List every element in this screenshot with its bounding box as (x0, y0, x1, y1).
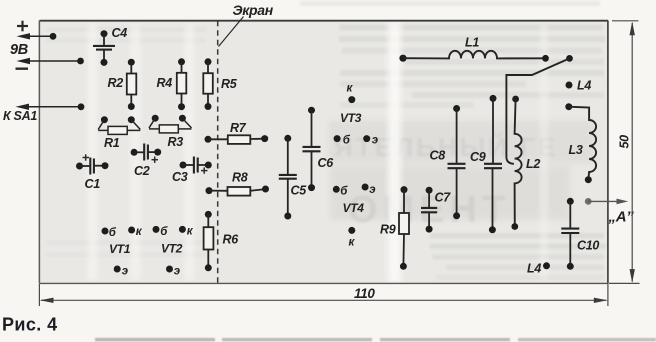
trimmer resistor R3 (149, 115, 192, 133)
electrolytic capacitor C1 (76, 154, 109, 174)
svg-text:R2: R2 (108, 76, 124, 90)
inductor L3 (565, 103, 596, 183)
transistor VT3 pad к (348, 96, 355, 103)
transistor VT2 pad э (166, 266, 173, 273)
svg-text:б: б (160, 226, 168, 238)
dimension extension line left (38, 284, 40, 306)
pad L4 bottom (543, 262, 550, 269)
svg-text:C8: C8 (430, 149, 446, 163)
svg-text:э: э (122, 266, 128, 278)
transistor VT2 pad к (179, 226, 186, 233)
transistor VT4 pad к (348, 227, 355, 234)
svg-text:R7: R7 (230, 121, 247, 135)
minus supply label (16, 67, 29, 69)
svg-text:э: э (372, 135, 378, 147)
pad L4 top (566, 82, 573, 89)
svg-text:VT4: VT4 (343, 201, 365, 215)
svg-text:9В: 9В (10, 42, 28, 58)
electrolytic capacitor C3 (180, 157, 212, 174)
svg-text:VT3: VT3 (340, 111, 362, 125)
svg-text:R9: R9 (380, 223, 396, 237)
board outline (40, 21, 608, 284)
svg-text:„А”: „А” (608, 209, 635, 226)
resistor R8 (206, 186, 270, 196)
resistor R6 (204, 211, 214, 271)
dimension line 110 (40, 298, 608, 303)
svg-text:C7: C7 (435, 191, 452, 205)
capacitor C7 (421, 187, 437, 233)
transistor VT1 pad э (114, 266, 121, 273)
svg-text:C10: C10 (577, 239, 599, 253)
dimension extension line bottom right (609, 282, 640, 284)
svg-text:б: б (109, 227, 117, 239)
svg-text:50: 50 (618, 135, 632, 149)
svg-text:C6: C6 (318, 156, 335, 170)
svg-text:L4: L4 (527, 262, 541, 276)
capacitor C8 (448, 105, 466, 219)
svg-text:L3: L3 (569, 143, 583, 157)
electrolytic capacitor C2 (131, 144, 162, 163)
svg-text:C5: C5 (291, 184, 308, 198)
transistor VT4 pad б (333, 186, 340, 193)
capacitor C5 (279, 135, 297, 220)
dimension extension line top right (612, 20, 639, 22)
switch wire from L1 to L2 tap (506, 55, 572, 164)
svg-text:б: б (340, 186, 348, 198)
svg-text:L4: L4 (577, 79, 591, 93)
svg-text:C9: C9 (470, 150, 486, 164)
svg-text:L1: L1 (465, 36, 479, 50)
capacitor C6 (303, 107, 321, 191)
shield line (Экран) (217, 21, 219, 284)
capacitor C4 (93, 30, 115, 66)
capacitor C10 (561, 198, 579, 270)
svg-text:э: э (174, 266, 180, 278)
transistor VT3 pad б (334, 135, 341, 142)
svg-text:К SA1: К SA1 (3, 109, 37, 123)
dimension extension line right (607, 284, 609, 306)
svg-text:C1: C1 (85, 177, 101, 191)
transistor VT4 pad э (362, 184, 369, 191)
svg-text:110: 110 (354, 286, 375, 301)
svg-text:R4: R4 (157, 76, 173, 90)
plus supply label (17, 21, 28, 32)
transistor VT3 pad э (363, 135, 370, 142)
board outline (39, 21, 608, 284)
trimmer resistor R1 (98, 116, 140, 134)
dimension line 50 (630, 22, 635, 283)
capacitor C9 (484, 95, 502, 233)
transistor VT2 pad б (153, 226, 160, 233)
svg-text:R1: R1 (104, 136, 120, 150)
svg-text:C3: C3 (172, 170, 188, 184)
leader line to shield (219, 17, 244, 47)
wire arrow -9V (17, 58, 84, 65)
inductor L1 (399, 51, 548, 62)
transistor VT1 pad к (128, 227, 135, 234)
svg-text:C4: C4 (112, 26, 128, 40)
svg-text:VT2: VT2 (161, 242, 183, 256)
transistor VT1 pad б (102, 228, 109, 235)
resistor R9 (399, 186, 409, 270)
svg-text:R3: R3 (168, 135, 184, 149)
svg-text:б: б (343, 135, 351, 147)
wire arrow to SA1 (16, 103, 85, 110)
svg-text:VT1: VT1 (109, 242, 131, 256)
resistor R5 (203, 58, 213, 110)
svg-text:R6: R6 (223, 233, 240, 247)
svg-text:R5: R5 (221, 77, 238, 91)
svg-text:Рис. 4: Рис. 4 (2, 315, 58, 335)
inductor L2 (511, 96, 521, 230)
resistor R2 (127, 59, 137, 110)
resistor R7 (205, 135, 269, 144)
svg-text:э: э (369, 184, 375, 196)
resistor R4 (177, 58, 187, 110)
svg-text:L2: L2 (526, 157, 540, 171)
output A arrow (585, 198, 629, 205)
svg-text:R8: R8 (232, 171, 248, 185)
svg-text:Экран: Экран (233, 2, 274, 18)
svg-text:C2: C2 (134, 164, 150, 178)
wire arrow +9V (17, 33, 57, 40)
